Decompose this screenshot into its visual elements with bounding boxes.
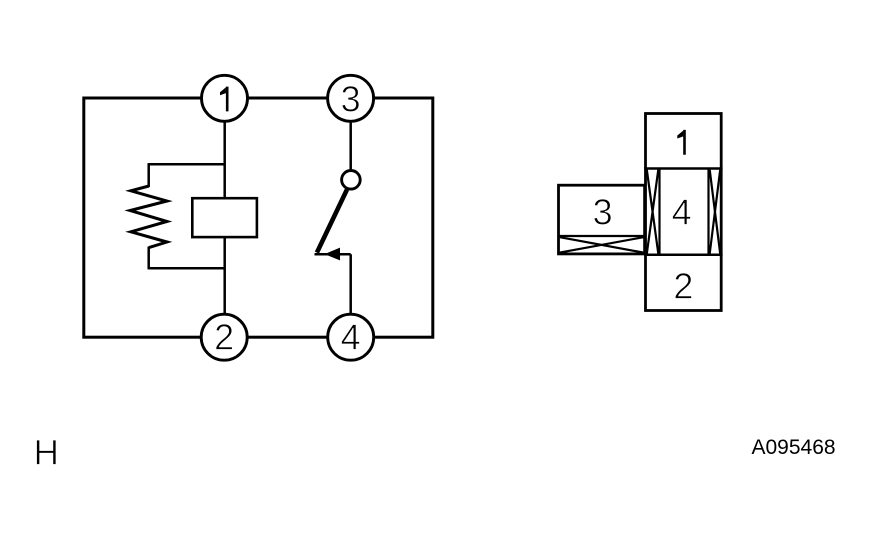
svg-text:3: 3 (341, 78, 361, 119)
svg-text:2: 2 (214, 316, 234, 357)
svg-text:4: 4 (672, 191, 692, 232)
svg-text:3: 3 (593, 191, 613, 232)
svg-text:H: H (34, 433, 59, 472)
svg-text:4: 4 (341, 316, 361, 357)
svg-text:A095468: A095468 (752, 436, 836, 459)
svg-text:2: 2 (673, 265, 693, 306)
